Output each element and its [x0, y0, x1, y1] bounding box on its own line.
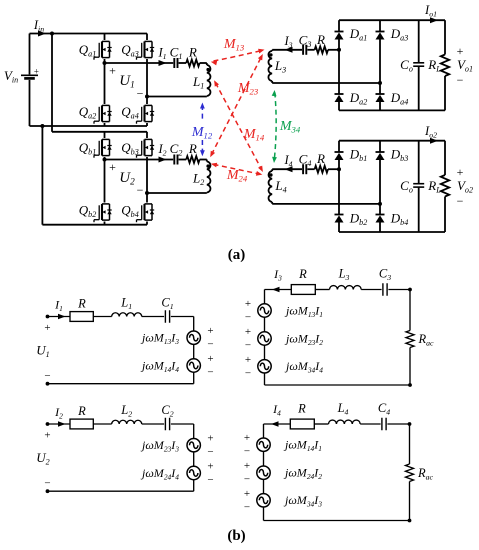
transistor Qb3 [121, 132, 154, 193]
inductor L2 [112, 403, 142, 424]
label U1 polarity + [44, 322, 50, 334]
current arrow I1 [58, 314, 66, 319]
transistor Qb4 [121, 193, 154, 225]
source jwM34I3 [244, 488, 322, 514]
mutual coupling M23 [210, 54, 263, 157]
current arrow Iin [38, 31, 46, 37]
label I1 [54, 298, 63, 314]
wire [147, 192, 207, 195]
label I2 [54, 405, 63, 421]
wire [200, 62, 207, 64]
wire [48, 316, 71, 318]
label (a) [228, 247, 246, 263]
svg-text:jωM14I4: jωM14I4 [140, 358, 179, 374]
svg-text:−: − [244, 474, 250, 486]
label U1 [36, 343, 49, 360]
node terminal [46, 489, 50, 493]
svg-text:+: + [207, 325, 213, 337]
wire [264, 423, 291, 425]
wire [409, 482, 411, 521]
label Io2 [424, 124, 437, 140]
svg-text:R: R [77, 404, 86, 418]
wire [105, 159, 174, 161]
label I2 [157, 142, 166, 158]
capacitor C2 [161, 403, 173, 430]
label U2 [36, 450, 49, 467]
current arrow I1 [159, 60, 167, 66]
capacitor C2 [170, 141, 183, 165]
svg-text:−: − [44, 370, 50, 382]
mutual coupling M12 [191, 103, 213, 157]
diode Da4 [376, 83, 409, 110]
diode Da3 [376, 20, 409, 83]
source jwM14I4 [140, 353, 214, 379]
svg-text:jωM13I3: jωM13I3 [140, 331, 179, 347]
svg-text:+: + [207, 461, 213, 473]
current arrow I3 [272, 287, 280, 292]
wire [48, 423, 71, 425]
svg-text:−: − [244, 501, 250, 513]
source jwM24I4 [140, 461, 214, 487]
inductor L4 [269, 169, 287, 202]
wire [42, 224, 147, 226]
svg-text:+: + [245, 298, 251, 310]
wire [142, 423, 164, 425]
node junction [408, 288, 412, 292]
resistor R [186, 45, 199, 67]
label U1 [119, 73, 135, 91]
capacitor C4 [378, 401, 390, 430]
label I3 [283, 34, 292, 50]
label Iin [33, 18, 44, 34]
capacitor C3 [379, 267, 391, 296]
node terminal [46, 382, 50, 386]
label U2 [119, 170, 135, 188]
label (b) [227, 528, 245, 544]
wire [265, 289, 292, 291]
wire [409, 290, 411, 331]
node terminal [46, 315, 50, 319]
wire [361, 289, 381, 291]
polarity dot L2 [206, 164, 209, 167]
diode Da1 [335, 20, 368, 50]
current arrow I2 [58, 421, 66, 426]
label U1 polarity - [44, 370, 50, 382]
wire [171, 424, 194, 439]
transistor Qa4 [121, 97, 154, 127]
label U1 polarity + [109, 64, 116, 78]
wire [48, 372, 194, 384]
label U2 polarity + [44, 430, 50, 442]
wire [52, 131, 147, 133]
transistor Qb2 [79, 160, 112, 225]
current arrow I2 [159, 157, 167, 163]
svg-text:−: − [137, 87, 144, 101]
polarity dot L3 [269, 53, 272, 56]
svg-text:−: − [137, 183, 144, 197]
svg-text:−: − [207, 339, 213, 351]
svg-text:jωM23I3: jωM23I3 [140, 438, 179, 454]
svg-text:−: − [207, 446, 213, 458]
current arrow I4 [285, 166, 293, 172]
source jwM34I4 [245, 354, 323, 380]
label Vo2 polarity + [457, 165, 464, 179]
resistor R [290, 402, 314, 429]
label I4 [272, 402, 281, 418]
svg-text:+: + [457, 165, 464, 179]
wire [339, 109, 445, 111]
resistor R [315, 151, 328, 173]
node junction top [50, 32, 54, 36]
resistor R [186, 141, 199, 163]
current arrow I4 [271, 421, 279, 426]
svg-text:jωM34I3: jωM34I3 [283, 493, 322, 509]
diode Db2 [335, 169, 368, 232]
diode Db3 [376, 141, 409, 204]
svg-text:−: − [245, 312, 251, 324]
wire [328, 49, 339, 51]
wire [315, 289, 329, 291]
node junction [408, 519, 412, 523]
svg-text:+: + [244, 460, 250, 472]
wire [387, 423, 409, 425]
resistor RL [427, 20, 449, 110]
label Vo2 polarity - [457, 194, 464, 208]
inductor L3 [268, 50, 286, 81]
inductor L2 [192, 160, 210, 193]
wire [264, 345, 266, 359]
svg-text:R: R [188, 141, 197, 156]
wire [339, 231, 445, 233]
wire [264, 317, 266, 332]
capacitor C1 [161, 296, 173, 323]
mutual coupling M14 [214, 80, 265, 172]
svg-text:−: − [207, 474, 213, 486]
polarity dot L4 [269, 173, 272, 176]
svg-text:+: + [207, 353, 213, 365]
svg-text:+: + [457, 44, 464, 58]
label U1 polarity - [137, 87, 144, 101]
label I1 [157, 46, 166, 62]
svg-text:−: − [245, 340, 251, 352]
wire [30, 33, 148, 35]
svg-text:R: R [298, 267, 307, 281]
mutual coupling M13 [211, 37, 265, 65]
current arrow Io1 [430, 17, 438, 23]
wire [272, 168, 302, 170]
label U2 polarity - [44, 478, 50, 490]
resistor Rac [406, 331, 434, 348]
svg-text:(b): (b) [227, 528, 245, 544]
svg-text:+: + [245, 354, 251, 366]
node bridge1 left midpoint [103, 61, 107, 65]
wire [147, 95, 207, 98]
resistor R [315, 32, 328, 53]
node junction [337, 48, 341, 52]
wire [48, 480, 194, 492]
mutual coupling M24 [211, 163, 262, 184]
inductor L4 [329, 401, 361, 424]
wire [93, 423, 111, 425]
svg-text:−: − [207, 367, 213, 379]
label Vo2 [457, 178, 473, 195]
svg-text:+: + [34, 66, 39, 76]
svg-text:+: + [109, 64, 116, 78]
svg-text:jωM24I2: jωM24I2 [283, 466, 322, 482]
svg-text:+: + [245, 326, 251, 338]
transistor Qb1 [79, 132, 112, 160]
wire [272, 202, 380, 204]
svg-text:jωM34I4: jωM34I4 [284, 359, 323, 375]
label U2 polarity - [137, 183, 144, 197]
wire [409, 424, 411, 464]
wire [142, 316, 164, 318]
wire [51, 34, 53, 132]
svg-text:+: + [244, 432, 250, 444]
svg-text:R: R [316, 32, 325, 47]
node junction [337, 167, 341, 171]
label I3 [273, 267, 282, 283]
node junction [378, 81, 382, 85]
svg-text:−: − [44, 478, 50, 490]
wire [307, 49, 314, 51]
wire [193, 344, 195, 358]
capacitor C1 [170, 45, 183, 69]
wire [339, 19, 445, 21]
wire [314, 423, 328, 425]
wire [409, 348, 411, 386]
svg-text:+: + [44, 430, 50, 442]
transistor Qa1 [79, 34, 112, 64]
resistor Rac [406, 464, 434, 482]
source jwM24I2 [244, 460, 322, 486]
node junction [408, 422, 412, 426]
capacitor C3 [299, 33, 312, 55]
svg-text:jωM24I4: jωM24I4 [140, 466, 179, 482]
svg-text:jωM14I1: jωM14I1 [283, 438, 322, 454]
source jwM13I3 [140, 325, 214, 351]
capacitor Co [400, 141, 424, 232]
battery Vin [21, 34, 39, 127]
inductor L1 [192, 63, 210, 96]
node junction [40, 124, 44, 128]
label I4 [283, 153, 292, 169]
wire [171, 317, 194, 332]
transistor Qa3 [121, 34, 154, 97]
svg-text:jωM23I2: jωM23I2 [284, 331, 323, 347]
svg-text:jωM13I1: jωM13I1 [284, 303, 323, 319]
capacitor Co [400, 20, 424, 110]
diode Da2 [335, 50, 368, 111]
wire [265, 373, 411, 385]
transistor Qa2 [79, 63, 112, 126]
source jwM13I1 [245, 298, 323, 324]
mutual coupling M34 [272, 90, 301, 163]
wire [328, 168, 339, 170]
wire [179, 62, 187, 64]
inductor L1 [112, 296, 142, 317]
resistor R [291, 267, 315, 294]
wire [360, 423, 380, 425]
svg-text:R: R [77, 297, 86, 311]
label Vo1 [457, 57, 473, 74]
svg-text:R: R [188, 45, 197, 60]
svg-text:+: + [207, 433, 213, 445]
wire [193, 452, 195, 466]
wire [263, 451, 265, 466]
wire [388, 289, 410, 291]
label Vin [4, 68, 18, 85]
node bridge2 right midpoint [145, 191, 149, 195]
resistor R [70, 297, 93, 322]
svg-text:+: + [109, 160, 116, 174]
svg-text:−: − [245, 367, 251, 379]
source jwM23I2 [245, 326, 323, 352]
polarity dot L1 [206, 68, 209, 71]
inductor L3 [330, 267, 362, 290]
wire [263, 479, 265, 493]
svg-text:R: R [316, 151, 325, 166]
svg-text:−: − [244, 446, 250, 458]
label Io1 [424, 3, 437, 19]
node bridge2 left midpoint [103, 158, 107, 162]
wire [264, 290, 266, 304]
node bridge1 right midpoint [145, 95, 149, 99]
resistor RL [427, 141, 449, 232]
svg-text:+: + [44, 322, 50, 334]
node terminal [46, 422, 50, 426]
current arrow I3 [285, 47, 293, 53]
source jwM14I1 [244, 432, 322, 458]
svg-text:(a): (a) [228, 247, 246, 263]
wire [272, 81, 380, 83]
wire [339, 140, 445, 142]
wire [307, 168, 314, 170]
node junction [378, 202, 382, 206]
label Vo1 polarity - [457, 73, 464, 87]
label Vo1 polarity + [457, 44, 464, 58]
wire [179, 159, 187, 161]
current arrow Io2 [430, 138, 438, 144]
node junction [408, 383, 412, 387]
svg-text:−: − [457, 194, 464, 208]
svg-text:+: + [244, 488, 250, 500]
wire [272, 49, 302, 51]
source jwM23I3 [140, 433, 214, 459]
wire [200, 159, 207, 161]
diode Db1 [335, 141, 368, 170]
svg-text:−: − [457, 73, 464, 87]
wire [264, 507, 410, 521]
capacitor C4 [299, 152, 312, 175]
diode Db4 [376, 204, 409, 232]
wire [30, 125, 148, 127]
svg-text:R: R [297, 402, 306, 416]
wire [105, 62, 174, 64]
wire [263, 424, 265, 438]
wire [41, 126, 43, 225]
label U2 polarity + [109, 160, 116, 174]
wire [93, 316, 111, 318]
resistor R [70, 404, 93, 429]
